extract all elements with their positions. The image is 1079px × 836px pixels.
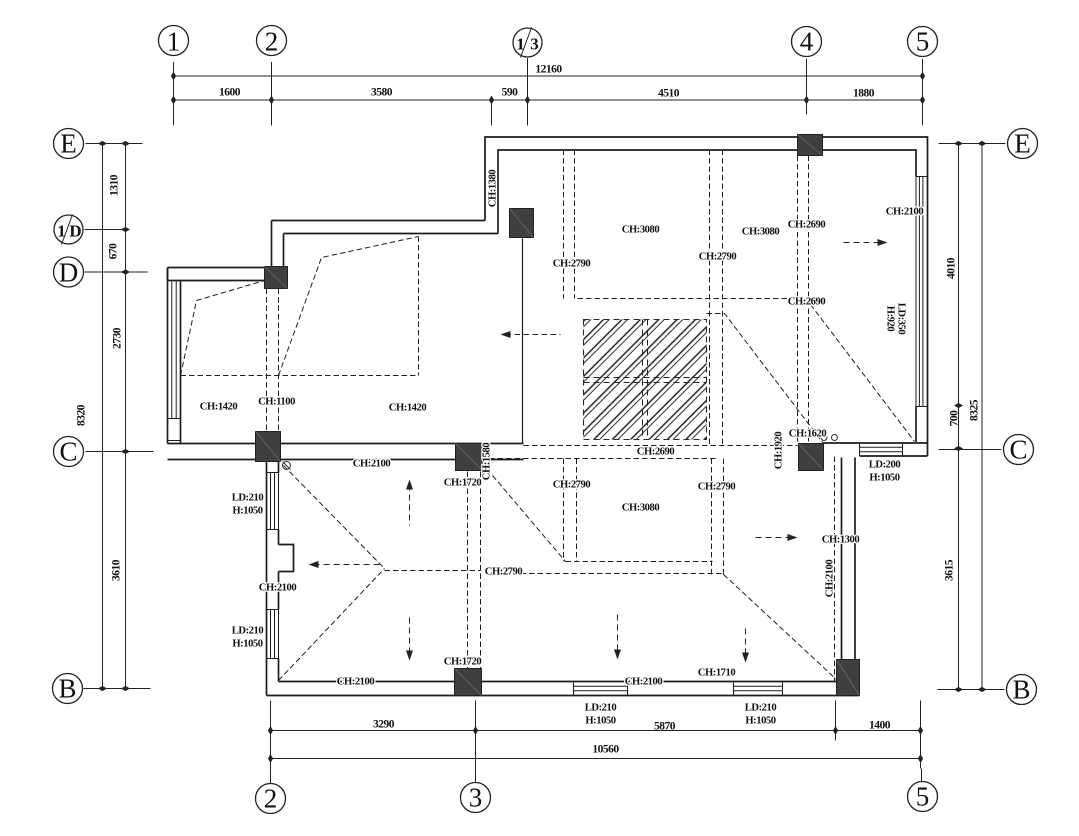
beam pair grid3 lower <box>467 472 469 669</box>
grid stub lines right <box>938 144 1006 690</box>
bubble E right <box>1008 129 1038 159</box>
svg-text:CH:2100: CH:2100 <box>825 560 836 598</box>
grid stub lines left <box>84 144 154 689</box>
ceiling line y298 <box>578 298 798 300</box>
bubble 1/3 top <box>513 28 542 57</box>
wall step 1/D <box>272 221 499 267</box>
svg-text:8320: 8320 <box>76 404 88 426</box>
svg-text:B: B <box>1012 675 1030 705</box>
bubble E left <box>54 129 84 159</box>
svg-text:CH:2100: CH:2100 <box>337 677 375 688</box>
svg-text:590: 590 <box>502 87 519 99</box>
svg-text:10560: 10560 <box>592 744 619 756</box>
lower-left room hip bottom <box>279 569 385 681</box>
ridge lower rooms <box>385 570 481 572</box>
wall C row left <box>168 444 524 460</box>
bubble 2 top <box>257 26 287 56</box>
ceiling hip right room 1 <box>707 314 824 444</box>
arrow right E-room <box>844 242 883 244</box>
svg-text:CH:2100: CH:2100 <box>259 583 297 594</box>
bubble 4 top <box>792 27 822 57</box>
svg-text:CH:1420: CH:1420 <box>200 402 238 413</box>
svg-text:CH:2790: CH:2790 <box>485 567 523 578</box>
svg-text:1: 1 <box>57 222 66 241</box>
svg-text:5870: 5870 <box>654 721 676 733</box>
bubble 5 bottom <box>908 782 938 812</box>
svg-text:H:1050: H:1050 <box>869 473 899 484</box>
dim lines bottom <box>271 731 921 759</box>
beam pair grid2 <box>266 289 268 432</box>
svg-text:3: 3 <box>530 35 539 54</box>
svg-text:E: E <box>1014 129 1031 159</box>
arrow left E-room <box>506 334 561 336</box>
svg-text:CH:2100: CH:2100 <box>353 459 391 470</box>
window left lower A <box>267 473 279 530</box>
svg-text:H:1050: H:1050 <box>232 639 262 650</box>
arrow left lower-left room <box>314 564 380 566</box>
svg-text:3615: 3615 <box>944 559 956 581</box>
svg-text:CH:3080: CH:3080 <box>622 225 660 236</box>
wall left (col 1) <box>168 268 181 444</box>
svg-text:1600: 1600 <box>219 87 241 99</box>
bubble C right <box>1004 435 1034 465</box>
wall left lower (col 2) <box>267 462 294 696</box>
bubble leader stubs <box>174 58 923 783</box>
bubble B left <box>53 674 83 704</box>
arrow right lower right room <box>756 537 793 539</box>
svg-text:CH:2690: CH:2690 <box>637 447 675 458</box>
svg-text:C: C <box>59 437 77 467</box>
svg-text:CH:1720: CH:1720 <box>444 657 482 668</box>
svg-text:D: D <box>59 258 79 288</box>
beam pair x563 upper <box>563 150 565 299</box>
svg-text:H:920: H:920 <box>885 306 896 332</box>
slashes in 1/3 and 1/D <box>62 28 532 245</box>
beam pair x709 upper <box>709 150 711 445</box>
svg-text:CH:1710: CH:1710 <box>698 668 736 679</box>
svg-text:CH:2790: CH:2790 <box>553 480 591 491</box>
svg-text:H:1050: H:1050 <box>585 716 615 727</box>
svg-text:3580: 3580 <box>371 87 393 99</box>
bubble 3 bottom <box>461 783 491 813</box>
svg-text:1: 1 <box>167 27 181 57</box>
svg-text:700: 700 <box>949 410 961 427</box>
hip from C3 column <box>493 476 566 562</box>
svg-text:8325: 8325 <box>969 399 981 421</box>
svg-text:CH:2100: CH:2100 <box>886 207 924 218</box>
column B3 <box>455 669 482 696</box>
svg-text:LD:350: LD:350 <box>896 303 907 335</box>
dashed line C row middle <box>524 445 798 447</box>
dim line overall top (12160) <box>174 76 923 100</box>
svg-text:1: 1 <box>516 35 525 54</box>
svg-text:CH:2690: CH:2690 <box>788 297 826 308</box>
column C4 <box>799 444 824 471</box>
ceiling ridge upper-left room <box>181 375 419 377</box>
ticks top dims <box>171 72 925 105</box>
bubble 1 top <box>159 26 189 56</box>
wall C row right <box>824 443 928 456</box>
window left lower B <box>267 610 279 659</box>
svg-text:LD:210: LD:210 <box>232 626 264 637</box>
bubble D left <box>54 257 84 287</box>
svg-text:D: D <box>69 222 81 241</box>
svg-text:CH:1920: CH:1920 <box>774 432 785 470</box>
wall interior right (below C) <box>842 458 856 662</box>
svg-text:2730: 2730 <box>112 327 124 349</box>
svg-text:4510: 4510 <box>658 88 680 100</box>
svg-text:H:1050: H:1050 <box>745 716 775 727</box>
svg-text:1880: 1880 <box>853 88 875 100</box>
arrow down lower-left room <box>409 618 411 656</box>
small circle at C2 corner <box>283 462 291 470</box>
svg-text:CH:3080: CH:3080 <box>742 227 780 238</box>
lower-left room hip top <box>284 466 385 569</box>
svg-text:3290: 3290 <box>373 719 395 731</box>
column at step (1/3) <box>510 209 534 238</box>
svg-text:LD:210: LD:210 <box>745 703 777 714</box>
wall top (E row) <box>485 137 928 456</box>
arrow down bottom right <box>745 629 747 658</box>
svg-text:CH:2790: CH:2790 <box>553 259 591 270</box>
column C3 <box>456 444 483 471</box>
arrow up lower-left room <box>409 485 411 526</box>
window bottom 1 <box>574 682 628 696</box>
small circles near C4 <box>821 435 838 441</box>
svg-text:5: 5 <box>916 782 930 812</box>
svg-text:3: 3 <box>469 783 483 813</box>
svg-text:CH:1380: CH:1380 <box>488 170 499 208</box>
bubble 1/D left <box>54 215 83 244</box>
svg-text:5: 5 <box>916 27 930 57</box>
bubble 2 bottom <box>256 784 286 814</box>
svg-text:3610: 3610 <box>111 559 123 581</box>
svg-text:H:1050: H:1050 <box>232 506 262 517</box>
hip to B5 column <box>724 575 837 680</box>
window left upper <box>168 281 181 441</box>
column C2 <box>256 432 281 462</box>
svg-text:CH:3080: CH:3080 <box>622 503 660 514</box>
svg-text:CH:1620: CH:1620 <box>789 429 827 440</box>
svg-text:4: 4 <box>800 27 814 57</box>
extension lines bottom <box>271 701 921 769</box>
beam pair x563 lower <box>563 459 565 562</box>
svg-text:LD:200: LD:200 <box>869 460 901 471</box>
bubble B right <box>1007 675 1037 705</box>
svg-text:CH:2790: CH:2790 <box>699 252 737 263</box>
svg-text:4010: 4010 <box>946 257 958 279</box>
column B5 (bottom right) <box>837 660 860 696</box>
svg-text:2: 2 <box>264 784 278 814</box>
column D2 <box>265 267 288 289</box>
svg-text:B: B <box>58 674 76 704</box>
window C right (LD:200) <box>860 443 903 456</box>
arrow down bottom middle <box>617 615 619 655</box>
hatch square <box>584 320 707 440</box>
svg-text:2: 2 <box>265 27 279 57</box>
ceiling edge vertical x418 <box>418 237 420 376</box>
lower middle ceiling rect top <box>481 458 718 460</box>
wall D row <box>168 268 266 281</box>
ceiling hip right room 2 <box>811 305 915 442</box>
svg-text:CH:2100: CH:2100 <box>625 677 663 688</box>
wall line x=522 <box>522 239 524 444</box>
wall B row bottom <box>267 682 860 696</box>
bubble C left <box>54 437 84 467</box>
beam pair x711 lower <box>711 459 713 575</box>
svg-text:LD:210: LD:210 <box>585 703 617 714</box>
svg-text:LD:210: LD:210 <box>232 493 264 504</box>
extension lines top <box>174 59 923 126</box>
svg-text:CH:1100: CH:1100 <box>258 397 295 408</box>
dashed line x834 <box>834 457 836 682</box>
bubble 5 top <box>908 27 938 57</box>
window bottom 2 <box>734 682 783 696</box>
svg-text:CH:1580: CH:1580 <box>482 443 493 481</box>
svg-text:1400: 1400 <box>869 720 891 732</box>
ceiling slope 1 upper-left <box>181 281 265 376</box>
svg-text:E: E <box>60 129 77 159</box>
svg-text:12160: 12160 <box>535 64 562 76</box>
window right wall (long) <box>916 177 928 407</box>
svg-text:CH:1300: CH:1300 <box>822 535 860 546</box>
svg-text:CH:1720: CH:1720 <box>444 478 482 489</box>
svg-text:CH:2790: CH:2790 <box>698 482 736 493</box>
svg-text:C: C <box>1009 435 1027 465</box>
svg-text:670: 670 <box>108 243 120 260</box>
ceiling slope 2 upper-left <box>279 237 419 376</box>
svg-text:1310: 1310 <box>109 174 121 196</box>
svg-text:CH:1420: CH:1420 <box>389 403 427 414</box>
column grid4 top <box>798 135 823 156</box>
beam pair grid4 <box>797 156 799 444</box>
svg-text:CH:2690: CH:2690 <box>788 220 826 231</box>
